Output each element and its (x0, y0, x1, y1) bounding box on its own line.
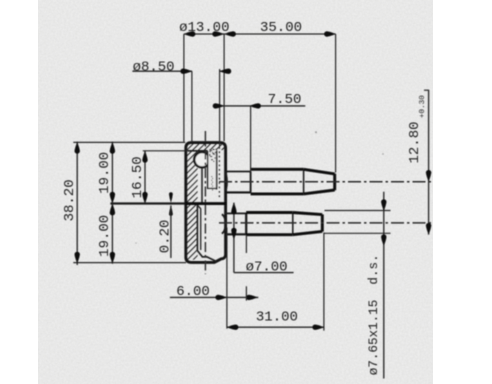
svg-text:38.20: 38.20 (62, 179, 78, 221)
svg-text:35.00: 35.00 (260, 20, 302, 36)
svg-text:7.50: 7.50 (268, 92, 302, 108)
svg-text:6.00: 6.00 (176, 284, 210, 300)
svg-text:19.00: 19.00 (97, 215, 113, 257)
svg-text:+0.30: +0.30 (419, 95, 427, 118)
svg-text:ø13.00: ø13.00 (179, 20, 229, 36)
svg-text:ø7.00: ø7.00 (246, 260, 288, 276)
svg-text:ø8.50: ø8.50 (133, 59, 175, 75)
svg-text:31.00: 31.00 (256, 310, 298, 326)
svg-text:0.20: 0.20 (157, 220, 173, 254)
svg-text:12.80: 12.80 (407, 121, 423, 163)
svg-text:19.00: 19.00 (97, 152, 113, 194)
svg-text:16.50: 16.50 (130, 156, 146, 198)
svg-text:ø7.65x1.15 d.s.: ø7.65x1.15 d.s. (367, 254, 381, 375)
